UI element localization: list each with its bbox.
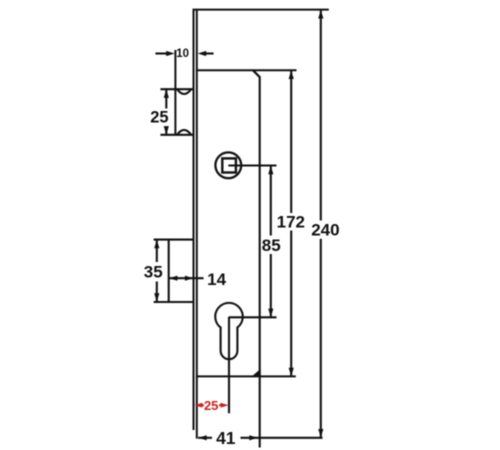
case bottom extension line bbox=[196, 375, 296, 377]
dim 25 latch dimension line segments bbox=[165, 89, 167, 108]
latch bolt top curve bbox=[177, 89, 191, 94]
dim 85 dimension line segments bbox=[270, 166, 272, 236]
dim 10 right dimension line bbox=[205, 52, 214, 54]
latch left edge / 10 extension line bbox=[174, 50, 176, 135]
latch bolt bottom curve bbox=[177, 130, 191, 135]
dim 14 dimension line bbox=[169, 277, 204, 279]
arrow dim35 bottom (points down) bbox=[154, 293, 159, 302]
latch bolt bottom line bbox=[160, 134, 194, 136]
svg-text:35: 35 bbox=[144, 263, 163, 282]
svg-text:10: 10 bbox=[176, 48, 189, 60]
deadbolt top line bbox=[154, 239, 195, 241]
dim 41 right dimension line bbox=[241, 437, 323, 439]
arrow dim10 left (points right) bbox=[166, 51, 175, 56]
dim 10 left dimension line bbox=[155, 52, 168, 54]
faceplate top extension line bbox=[193, 9, 329, 11]
cylinder center leader line bbox=[229, 316, 277, 318]
faceplate right edge line bbox=[196, 9, 198, 439]
dim 35 dimension line segments bbox=[156, 240, 158, 262]
svg-text:14: 14 bbox=[207, 270, 226, 289]
faceplate left edge line bbox=[193, 9, 195, 430]
red arrow right (points right) bbox=[221, 403, 229, 408]
svg-text:25: 25 bbox=[204, 398, 218, 413]
follower square hole bbox=[222, 158, 236, 172]
arrow dim85 bottom (points down) bbox=[268, 309, 273, 318]
arrow dim10 right (points left) bbox=[198, 51, 207, 56]
svg-text:85: 85 bbox=[262, 236, 281, 255]
arrow dim41 right (points right) bbox=[249, 435, 257, 440]
euro cylinder hole bbox=[215, 303, 243, 359]
dim 240 dimension line segments bbox=[320, 10, 322, 221]
cylinder centerline vertical bbox=[228, 317, 230, 414]
dim 41 left dimension line bbox=[198, 437, 212, 439]
arrow dim85 top (points up) bbox=[268, 166, 273, 175]
arrow dim172 top (points up) bbox=[289, 71, 294, 80]
dim 172 dimension line segments bbox=[290, 70, 292, 213]
red backset dimension 25 bbox=[194, 403, 228, 408]
arrow dim14 right (points right) bbox=[185, 276, 194, 281]
arrow dim35 top (points up) bbox=[154, 240, 159, 249]
follower center leader line bbox=[228, 164, 276, 166]
arrow dim240 top (points up) bbox=[318, 10, 323, 19]
case top extension line bbox=[196, 69, 297, 71]
arrow dim240 bottom (points down) bbox=[318, 429, 323, 438]
deadbolt bottom line bbox=[154, 301, 195, 303]
follower circle bbox=[215, 152, 241, 178]
svg-text:240: 240 bbox=[311, 221, 339, 240]
arrow dim25 latch bottom (points down) bbox=[164, 126, 169, 135]
deadbolt left edge bbox=[168, 240, 170, 302]
arrow dim41 left (points left) bbox=[198, 435, 207, 440]
arrow dim25 latch top (points up) bbox=[164, 89, 169, 98]
arrow dim172 bottom (points down) bbox=[289, 368, 294, 377]
svg-text:25: 25 bbox=[150, 108, 168, 126]
case right edge vertical (41 extension) bbox=[259, 77, 261, 448]
svg-text:172: 172 bbox=[277, 213, 305, 232]
latch bolt top line bbox=[160, 88, 194, 90]
red arrow left (points left) bbox=[194, 403, 202, 408]
case right edge bottom chamfer wedge bbox=[252, 369, 261, 377]
svg-text:41: 41 bbox=[216, 428, 236, 448]
arrow dim14 left (points left) bbox=[169, 276, 178, 281]
case right edge top chamfer bbox=[253, 70, 260, 77]
